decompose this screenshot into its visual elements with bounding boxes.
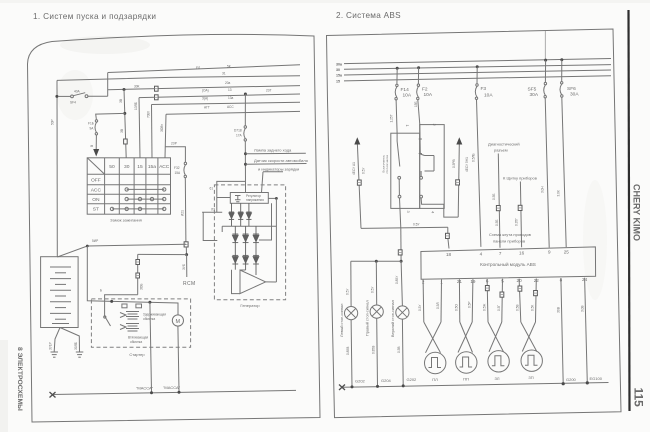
- wheel sensor ZP: [519, 279, 521, 322]
- svg-text:З0ЛБ: З0ЛБ: [74, 342, 78, 350]
- page margin rule right: [629, 10, 630, 411]
- wire switch output up to bus A: [107, 72, 109, 96]
- fuse D718 17A branch: [244, 93, 247, 96]
- svg-text:10А: 10А: [484, 93, 493, 99]
- svg-text:30А: 30А: [530, 92, 539, 98]
- svg-text:30а: 30а: [336, 63, 343, 67]
- svg-text:Б: Б: [100, 289, 102, 293]
- svg-text:Диагностический: Диагностический: [488, 142, 520, 147]
- svg-text:40А: 40А: [74, 90, 81, 94]
- exciter diode 3: [246, 203, 251, 226]
- svg-text:15а: 15а: [148, 164, 156, 170]
- svg-text:ЕЛ: ЕЛ: [196, 66, 200, 70]
- wire 30K line: [108, 86, 300, 90]
- pull-in winding: [120, 324, 139, 332]
- brake switch contact: [396, 133, 398, 141]
- relay coil: [419, 125, 422, 154]
- wire F2 to relay pin2: [418, 100, 420, 125]
- wire B arrow into lock: [95, 135, 97, 149]
- svg-text:Схема жгута проводов: Схема жгута проводов: [489, 232, 531, 237]
- svg-text:1.25Т: 1.25Т: [390, 114, 394, 122]
- wire to starter relay chain: [138, 253, 187, 255]
- svg-text:0.5Ж: 0.5Ж: [483, 304, 487, 311]
- svg-text:ЗУ1Р: ЗУ1Р: [49, 342, 53, 350]
- connector on 30K line: [155, 86, 159, 91]
- svg-text:G202: G202: [355, 379, 366, 384]
- svg-text:70Вт: 70Вт: [147, 110, 151, 118]
- svg-text:G204: G204: [381, 378, 392, 383]
- svg-text:3.0К: 3.0К: [557, 190, 561, 196]
- lamp left: [345, 307, 358, 320]
- svg-text:"МАССА": "МАССА": [163, 385, 181, 390]
- node speed sensor: [244, 163, 247, 166]
- rectifier diode T3: [253, 226, 259, 254]
- svg-text:стоп-сигналов: стоп-сигналов: [385, 155, 389, 174]
- svg-text:ОFF: ОFF: [91, 178, 101, 184]
- table contacts ACC row: [127, 188, 165, 190]
- generator dashed box: [214, 185, 285, 300]
- ignition switch table: [87, 158, 170, 214]
- svg-text:9: 9: [548, 250, 551, 255]
- gen B+ wire: [245, 185, 247, 193]
- gen right verticals: [275, 198, 277, 282]
- wire 15 line: [139, 94, 300, 98]
- svg-text:7: 7: [499, 251, 502, 256]
- svg-text:Лампа заднего хода: Лампа заднего хода: [254, 148, 292, 153]
- svg-text:10А: 10А: [424, 92, 433, 98]
- svg-text:З0В: З0В: [557, 307, 561, 313]
- battery cable to starter contact: [87, 246, 178, 315]
- svg-text:Стартер: Стартер: [129, 352, 145, 357]
- svg-text:30: 30: [124, 164, 130, 170]
- bus 3 (15a): [344, 70, 611, 75]
- svg-text:3.0Н: 3.0Н: [541, 186, 545, 193]
- voltage regulator box: [230, 193, 268, 204]
- svg-text:5ИР: 5ИР: [92, 239, 98, 243]
- svg-text:15А: 15А: [175, 171, 182, 175]
- node below connector: [185, 247, 187, 255]
- battery ground wires: [54, 328, 60, 352]
- wire RCM drop: [186, 255, 188, 277]
- svg-text:3.0В: 3.0В: [581, 305, 585, 312]
- top pin numbers: [446, 249, 569, 257]
- svg-text:115: 115: [632, 388, 646, 408]
- svg-text:Правый стоп-сигнал: Правый стоп-сигнал: [366, 300, 370, 336]
- rectifier diode T2: [243, 226, 249, 254]
- svg-text:ПЛ: ПЛ: [432, 377, 438, 382]
- lamp ground wires: [350, 320, 353, 387]
- fuse SF5 30A: [544, 59, 547, 62]
- svg-text:15Б: 15Б: [414, 101, 418, 107]
- svg-text:обмотка: обмотка: [130, 340, 142, 344]
- svg-text:0.5Б: 0.5Б: [495, 219, 499, 226]
- svg-text:К Щитку приборов: К Щитку приборов: [503, 176, 537, 181]
- fuse F32 15A: [165, 147, 185, 163]
- svg-text:1. Систем пуска и подзарядки: 1. Систем пуска и подзарядки: [33, 12, 156, 21]
- svg-text:30: 30: [336, 68, 340, 72]
- bus 4 (15): [344, 76, 611, 81]
- stator delta winding: [232, 270, 277, 294]
- solenoid coil wire down to ground: [150, 302, 152, 391]
- svg-text:ЗУБ: ЗУБ: [182, 264, 186, 270]
- svg-text:F32: F32: [174, 166, 180, 170]
- wire L3 field: [202, 211, 222, 213]
- svg-text:0.85У: 0.85У: [395, 275, 399, 284]
- svg-text:напряжения: напряжения: [246, 198, 264, 202]
- svg-text:ЗП: ЗП: [528, 375, 533, 380]
- svg-text:И21: И21: [181, 210, 185, 216]
- svg-text:Верхний стоп-сигнал: Верхний стоп-сигнал: [391, 300, 395, 337]
- svg-text:G202: G202: [407, 377, 418, 382]
- fuse SF6 30A: [560, 58, 563, 61]
- wire SF5 to ABS pin9: [545, 98, 549, 248]
- bottom pin numbers: [422, 277, 588, 285]
- svg-text:F2: F2: [422, 87, 428, 93]
- holding winding: [120, 312, 139, 320]
- svg-text:13: 13: [228, 88, 232, 92]
- relay box: [420, 125, 445, 209]
- svg-text:10А: 10А: [403, 93, 412, 99]
- regulator right node: [268, 197, 276, 199]
- wire 5IR from battery: [57, 244, 186, 257]
- svg-text:"МАССА": "МАССА": [136, 386, 154, 391]
- svg-text:ПП: ПП: [463, 377, 469, 382]
- node reverse lamp: [244, 152, 247, 155]
- svg-text:Левый стоп-сигнал: Левый стоп-сигнал: [340, 304, 344, 337]
- 0.5U horizontal: [361, 227, 448, 228]
- svg-text:АГТ: АГТ: [204, 106, 210, 110]
- svg-text:З(А): З(А): [202, 97, 208, 101]
- ground bus panel1: [52, 390, 296, 394]
- ABS ground wires: [561, 278, 563, 384]
- svg-text:и индикаторы зарядки: и индикаторы зарядки: [258, 166, 299, 171]
- svg-text:CHERY KIMO: CHERY KIMO: [632, 184, 642, 241]
- exciter diode 1: [229, 203, 234, 226]
- starter motor M: [172, 315, 183, 326]
- svg-text:З1: З1: [222, 72, 226, 76]
- svg-text:АСС: АСС: [159, 164, 170, 170]
- connector I21/5IR: [184, 242, 188, 247]
- svg-text:(ОА): (ОА): [202, 89, 209, 93]
- ground symbol battery 1: [51, 352, 59, 357]
- svg-text:15а: 15а: [336, 74, 343, 78]
- svg-text:RСМ: RСМ: [183, 281, 196, 287]
- wheel sensor PP: [458, 279, 460, 322]
- svg-text:0.5Р: 0.5Р: [468, 301, 472, 308]
- svg-text:SТ: SТ: [93, 207, 99, 213]
- svg-text:50: 50: [109, 164, 115, 170]
- svg-text:0.5В: 0.5В: [516, 304, 520, 311]
- table contacts ON row: [127, 198, 165, 200]
- svg-text:0.5У: 0.5У: [413, 223, 420, 227]
- fuse F3 10A: [476, 65, 479, 68]
- fuse F1B 9A branch: [96, 113, 125, 119]
- svg-text:15: 15: [336, 80, 340, 84]
- right off-page arrow wire: [456, 137, 462, 144]
- bus A (EL/5K): [108, 65, 300, 73]
- svg-text:разъем: разъем: [494, 148, 508, 153]
- svg-text:ЗОВт: ЗОВт: [160, 124, 164, 132]
- svg-text:Контрольный модуль АВS: Контрольный модуль АВS: [480, 261, 536, 267]
- svg-text:ОN: ОN: [92, 197, 100, 203]
- svg-text:Замок зажигания: Замок зажигания: [110, 218, 142, 223]
- wire 15a line: [152, 102, 301, 104]
- svg-text:4ЕСУ 5Н1: 4ЕСУ 5Н1: [465, 157, 469, 172]
- svg-text:SF4: SF4: [70, 101, 76, 105]
- svg-text:20а: 20а: [225, 81, 231, 85]
- svg-text:1ЗЛБ: 1ЗЛБ: [134, 102, 138, 110]
- fusible link SF4 40A: [58, 95, 71, 97]
- bus B (30) from battery wire: [57, 76, 300, 81]
- svg-text:Генератор: Генератор: [240, 303, 260, 308]
- left off-page arrow wire: [354, 137, 360, 144]
- svg-text:0.5О: 0.5О: [455, 304, 459, 311]
- svg-text:0.5ЛБ: 0.5ЛБ: [472, 153, 476, 162]
- svg-text:18: 18: [446, 252, 452, 257]
- svg-text:SF6: SF6: [567, 86, 576, 92]
- svg-text:61: 61: [210, 187, 214, 191]
- wire to regulator top: [262, 172, 264, 193]
- svg-text:0.85В: 0.85В: [346, 347, 350, 355]
- bus 2 (30): [344, 65, 611, 70]
- svg-text:0.5РВ: 0.5РВ: [452, 159, 456, 168]
- svg-text:АСС: АСС: [227, 105, 234, 109]
- bus 1 (30a): [344, 59, 611, 64]
- rectifier diode B2: [243, 254, 249, 270]
- svg-text:25: 25: [564, 249, 570, 254]
- wire F14 to relay pin1: [396, 100, 397, 133]
- svg-text:0.5В: 0.5В: [397, 346, 401, 353]
- svg-text:G200: G200: [566, 377, 577, 382]
- svg-text:15: 15: [137, 164, 143, 170]
- svg-text:0.5У: 0.5У: [346, 288, 350, 295]
- wire SF6 to ABS pin25: [562, 97, 566, 247]
- svg-text:0.85В: 0.85В: [372, 346, 376, 354]
- svg-text:F14: F14: [401, 87, 410, 93]
- svg-text:0.5Л: 0.5Л: [436, 302, 440, 309]
- stop lamps feed wires: [351, 260, 401, 262]
- svg-text:4ЕСУ А1: 4ЕСУ А1: [352, 162, 356, 175]
- svg-text:М: М: [176, 319, 181, 325]
- svg-text:F1Б: F1Б: [88, 122, 94, 126]
- svg-text:13а: 13а: [228, 96, 234, 100]
- svg-text:2. Система ABS: 2. Система ABS: [336, 11, 401, 20]
- wire to ABS pin18: [447, 227, 449, 233]
- wire pin3 down: [400, 198, 401, 228]
- svg-text:30А: 30А: [570, 92, 579, 98]
- svg-text:ЗОБ: ЗОБ: [140, 284, 144, 290]
- svg-text:ЕG100: ЕG100: [590, 376, 603, 381]
- svg-text:ЗВ: ЗВ: [120, 129, 124, 133]
- lamp right: [396, 306, 409, 319]
- ground symbol battery 2: [76, 352, 84, 357]
- svg-text:SF5: SF5: [528, 87, 537, 93]
- svg-text:2ЗР: 2ЗР: [171, 142, 177, 146]
- fuse F2 10A: [417, 66, 420, 69]
- stub above SF5: [544, 31, 546, 60]
- svg-text:обмотка: обмотка: [143, 317, 155, 321]
- rectifier diode T1: [232, 226, 238, 254]
- starter dashed box: [91, 299, 190, 347]
- wheel sensor ZL: [486, 279, 489, 322]
- svg-text:ЗВ: ЗВ: [119, 99, 123, 103]
- svg-text:D718: D718: [234, 129, 242, 133]
- panel 1 frame: [28, 34, 321, 422]
- wire col30 drop: [124, 90, 126, 158]
- svg-text:16: 16: [519, 250, 525, 255]
- svg-text:F3: F3: [481, 86, 487, 92]
- exciter diode 2: [238, 203, 243, 226]
- svg-text:4: 4: [480, 251, 483, 256]
- svg-text:АСС: АСС: [91, 188, 102, 194]
- solenoid contacts: [122, 304, 127, 308]
- svg-text:5К: 5К: [227, 65, 231, 69]
- svg-text:30К: 30К: [134, 85, 140, 89]
- wire ACC line: [166, 111, 300, 114]
- svg-text:2ЗГ: 2ЗГ: [266, 88, 272, 92]
- svg-text:8 ЭЛЕКТРОСХЕМЫ: 8 ЭЛЕКТРОСХЕМЫ: [16, 347, 23, 411]
- solenoid blade: [105, 316, 111, 326]
- svg-text:ЗЛ: ЗЛ: [495, 376, 500, 381]
- brake switch box: [391, 133, 420, 208]
- ABS control module box: [421, 247, 596, 279]
- svg-text:50Р: 50Р: [51, 119, 55, 125]
- svg-text:Датчик скорости автомобиля: Датчик скорости автомобиля: [254, 158, 308, 163]
- wire I21: [184, 178, 187, 242]
- svg-text:0.5К: 0.5К: [531, 305, 535, 311]
- exciter rail: [222, 225, 276, 227]
- svg-text:В: В: [90, 145, 94, 147]
- svg-text:17А: 17А: [236, 134, 243, 138]
- wheel sensor PL: [422, 280, 425, 322]
- rectifier diode B3: [253, 254, 259, 275]
- wire 61 to regulator: [217, 181, 246, 212]
- table contacts ST row: [112, 208, 164, 210]
- fuse F14 10A: [396, 67, 399, 70]
- svg-text:панели приборов: панели приборов: [493, 239, 525, 244]
- relay pin4 wire to arrow wire: [421, 198, 458, 217]
- svg-text:0.5Б: 0.5Б: [492, 193, 496, 200]
- rectifier diode B1: [232, 254, 238, 270]
- svg-text:0.5У: 0.5У: [418, 304, 422, 311]
- svg-text:0.5У: 0.5У: [362, 167, 366, 174]
- svg-text:0.35Г: 0.35Г: [515, 218, 519, 226]
- svg-text:0.5У: 0.5У: [371, 286, 375, 293]
- node battery tap for SF4: [55, 95, 58, 98]
- panel 2 frame: [327, 29, 622, 418]
- lamp mid: [370, 305, 383, 318]
- ground bus panel2: [342, 383, 609, 388]
- battery: [41, 257, 79, 328]
- wire F3 to ABS pin4: [477, 100, 481, 247]
- svg-text:0.5Г: 0.5Г: [497, 305, 501, 311]
- battery feed wire (vertical left): [56, 80, 58, 257]
